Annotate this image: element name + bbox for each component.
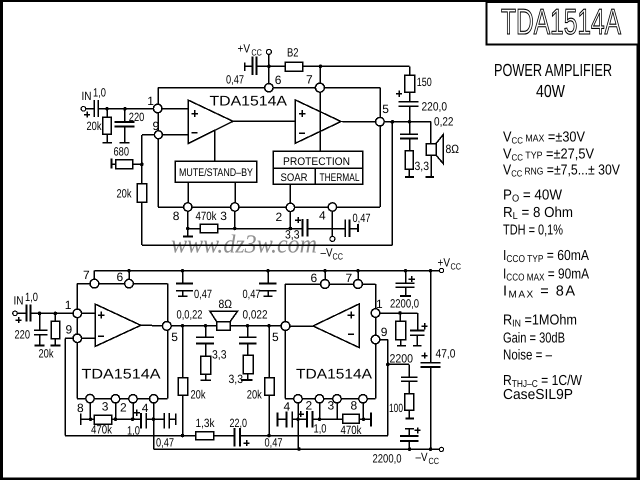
svg-text:3,3: 3,3 [415,159,430,173]
svg-text:CC: CC [429,456,440,466]
svg-text:8: 8 [77,401,84,415]
svg-text:THERMAL: THERMAL [320,172,360,184]
svg-text:8Ω: 8Ω [446,142,460,156]
svg-text:2: 2 [306,399,313,413]
svg-text:TDA1514A: TDA1514A [210,93,288,109]
svg-text:0,47: 0,47 [265,436,283,450]
svg-text:470k: 470k [91,423,113,437]
svg-text:20k: 20k [117,186,133,200]
svg-text:470k: 470k [196,209,218,223]
svg-text:8: 8 [173,209,180,223]
svg-text:3,3: 3,3 [285,228,300,242]
svg-text:680: 680 [114,144,130,158]
svg-text:6: 6 [311,271,318,285]
svg-text:3: 3 [220,209,227,223]
svg-text:4: 4 [284,400,291,414]
svg-text:220: 220 [15,328,31,342]
svg-text:+V: +V [238,42,251,56]
svg-text:CC: CC [451,261,462,271]
svg-text:3: 3 [328,399,335,413]
svg-text:9: 9 [381,325,388,339]
svg-text:2200,0: 2200,0 [390,297,419,311]
svg-text:IN: IN [82,89,92,103]
svg-text:4: 4 [142,401,149,415]
svg-text:8: 8 [351,399,358,413]
svg-text:1,0: 1,0 [314,422,327,436]
svg-text:7: 7 [346,271,353,285]
svg-text:150: 150 [417,75,432,89]
svg-text:SOAR: SOAR [281,172,308,184]
svg-text:100: 100 [389,401,403,415]
svg-text:CaseSIL9P: CaseSIL9P [503,387,573,403]
svg-text:7: 7 [306,73,313,87]
svg-text:B2: B2 [287,46,299,60]
svg-text:220: 220 [129,110,145,124]
svg-text:20k: 20k [191,387,207,401]
svg-text:2: 2 [120,400,127,414]
svg-text:TDA1514A: TDA1514A [82,366,162,382]
svg-text:0,47: 0,47 [243,287,261,301]
svg-text:47,0: 47,0 [436,346,456,360]
svg-text:TDA1514A: TDA1514A [501,1,621,42]
svg-text:–V: –V [321,246,333,260]
svg-text:TDA1514A: TDA1514A [296,366,373,382]
svg-text:IN: IN [14,293,24,307]
svg-text:–V: –V [416,450,428,464]
svg-text:1,0: 1,0 [127,424,140,438]
svg-text:3,3: 3,3 [212,347,227,361]
svg-text:4: 4 [319,209,326,223]
svg-text:1: 1 [376,297,383,311]
svg-text:0,22: 0,22 [434,115,454,129]
svg-text:1: 1 [147,94,154,108]
svg-text:6: 6 [117,270,124,284]
svg-text:220,0: 220,0 [422,99,448,113]
svg-text:3,3: 3,3 [229,372,244,386]
svg-text:8Ω: 8Ω [219,297,233,311]
svg-text:0,022: 0,022 [243,308,268,322]
svg-text:1,0: 1,0 [25,290,38,304]
svg-text:5: 5 [171,330,178,344]
svg-text:0,47: 0,47 [226,72,244,86]
svg-text:1,0: 1,0 [93,86,106,100]
svg-text:9: 9 [66,323,73,337]
svg-text:5: 5 [272,330,279,344]
svg-text:20k: 20k [39,346,55,360]
svg-text:0,47: 0,47 [156,436,174,450]
svg-text:0,0,22: 0,0,22 [177,308,203,322]
svg-text:0,47: 0,47 [353,211,371,225]
svg-text:20k: 20k [247,387,263,401]
svg-text:Gain = 30dB: Gain = 30dB [503,331,565,347]
svg-text:2200: 2200 [390,351,414,365]
svg-text:3: 3 [102,400,109,414]
svg-text:0,47: 0,47 [194,287,212,301]
svg-text:5: 5 [382,102,389,116]
svg-text:2: 2 [276,210,283,224]
svg-text:6: 6 [275,73,282,87]
svg-text:470k: 470k [341,423,363,437]
svg-text:Noise = –: Noise = – [503,348,553,364]
svg-text:+V: +V [438,255,451,269]
svg-text:20k: 20k [87,119,103,133]
svg-text:22,0: 22,0 [230,416,248,430]
svg-text:40W: 40W [536,81,565,101]
svg-text:MUTE/STAND–BY: MUTE/STAND–BY [179,167,254,179]
svg-text:1,3k: 1,3k [196,416,216,430]
svg-text:9: 9 [153,119,160,133]
svg-text:1: 1 [65,298,72,312]
svg-text:PROTECTION: PROTECTION [283,156,350,168]
svg-text:CC: CC [333,252,344,262]
svg-text:PO = 40W: PO = 40W [503,188,562,205]
svg-text:TDH = 0,1%: TDH = 0,1% [503,223,563,239]
svg-text:7: 7 [83,268,90,282]
svg-text:POWER AMPLIFIER: POWER AMPLIFIER [494,60,612,80]
svg-text:CC: CC [251,48,262,58]
svg-text:2200,0: 2200,0 [373,451,402,465]
